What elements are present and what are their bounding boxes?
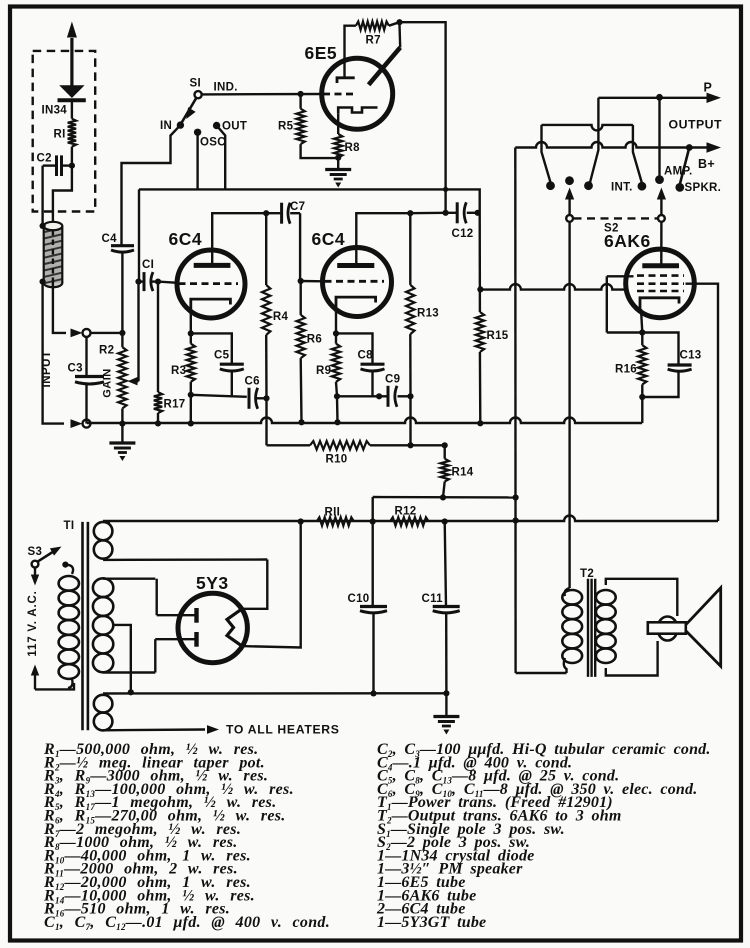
6AK6 grid line xyxy=(480,284,627,290)
T1 HV center tap xyxy=(112,625,131,692)
oscillator feedback line xyxy=(139,189,480,212)
contact IN xyxy=(177,121,184,128)
6AK6 plate wire from right wiper xyxy=(660,222,663,266)
5Y3 plate 1 xyxy=(194,608,198,623)
S2 gang dashed link xyxy=(574,217,658,219)
T1 5V bottom lead to 5Y3 filament xyxy=(103,558,267,561)
T2 secondary winding xyxy=(596,590,616,605)
resistor R6 xyxy=(300,281,302,315)
6AK6 suppressor tie xyxy=(607,275,634,277)
B+ line xyxy=(515,142,707,148)
tube 6E5 xyxy=(322,58,393,129)
node R17 bottom xyxy=(155,420,161,426)
heater-ground bus xyxy=(103,692,446,695)
svg-text:C3: C3 xyxy=(68,363,83,375)
wire C1 left down to R2 wiper xyxy=(137,282,139,382)
wire S1 to 6E5 grid (IND line) xyxy=(202,93,322,96)
tube 6AK6 xyxy=(626,249,695,318)
node R9 at bus xyxy=(334,419,340,425)
resistor R1 xyxy=(68,119,76,147)
capacitor C3 xyxy=(85,337,87,377)
svg-text:R8: R8 xyxy=(345,142,361,154)
117VAC upper prong arrow xyxy=(34,568,36,579)
6C4-1 cathode xyxy=(191,299,231,314)
117VAC lower prong arrow xyxy=(34,675,36,689)
wire R4 bottom to bus B xyxy=(265,398,267,445)
svg-text:C10: C10 xyxy=(348,593,370,605)
6AK6 screen wire xyxy=(686,284,719,521)
svg-text:CI: CI xyxy=(142,259,154,271)
6AK6 screen dash xyxy=(637,282,684,285)
svg-text:OSC: OSC xyxy=(200,137,226,149)
node C12 left xyxy=(443,210,449,216)
node rail R11-R12-C10 xyxy=(370,518,376,524)
H2 right leg xyxy=(633,125,642,183)
node R7 right / plate xyxy=(396,19,402,25)
svg-text:R6: R6 xyxy=(307,334,322,346)
svg-text:C2: C2 xyxy=(37,153,52,165)
resistor R17 xyxy=(157,282,159,393)
6C4-2 cathode xyxy=(336,297,376,312)
node C1 right / 6C4 grid xyxy=(155,279,161,285)
T1 HV top lead xyxy=(103,578,155,580)
svg-text:5Y3: 5Y3 xyxy=(196,573,229,593)
T1 primary terminal xyxy=(62,562,68,568)
capacitor C11 xyxy=(445,522,446,607)
node R15 bottom at bus xyxy=(477,420,483,426)
wire R16 bottom to ground bus xyxy=(641,397,644,423)
5Y3 filament top wire xyxy=(242,560,267,609)
6AK6 plate bar xyxy=(642,263,679,268)
node C10 at heater bus xyxy=(370,690,376,696)
node C12 right xyxy=(475,210,481,216)
capacitor C5 xyxy=(191,333,232,364)
svg-text:TO ALL HEATERS: TO ALL HEATERS xyxy=(226,723,340,737)
capacitor C12 xyxy=(446,212,457,214)
svg-text:R14: R14 xyxy=(452,467,474,479)
T2 secondary top lead xyxy=(606,579,678,616)
T1 5V top lead to B+ rail xyxy=(103,521,110,523)
speaker magnet xyxy=(658,617,678,641)
node 6AK6 grid tap xyxy=(477,286,483,292)
svg-text:6AK6: 6AK6 xyxy=(604,231,651,251)
node R3 bottom xyxy=(188,392,194,398)
svg-text:R17: R17 xyxy=(164,399,186,411)
svg-text:IN: IN xyxy=(160,120,172,132)
wire R3 bottom to bus xyxy=(190,395,192,424)
capacitor C8 xyxy=(336,333,373,364)
node rail 5Y3 takeoff xyxy=(298,518,304,524)
tube 6C4 first xyxy=(177,250,245,318)
resistor R8 xyxy=(337,114,339,134)
node 6AK6 cathode junction xyxy=(639,329,645,335)
wire to T2 primary bottom xyxy=(516,672,567,674)
svg-text:R5: R5 xyxy=(278,121,294,133)
6AK6 control grid dash xyxy=(637,290,684,293)
resistor R7 xyxy=(356,22,389,30)
6C4-1 plate wire to node xyxy=(212,213,266,265)
6E5 ray electrode xyxy=(369,48,401,85)
node R3 at bus xyxy=(188,420,194,426)
svg-text:C13: C13 xyxy=(680,350,702,362)
node 6C4-1 plate / C7 / R4 xyxy=(263,210,269,216)
svg-text:R7: R7 xyxy=(366,35,381,47)
resistor R14 xyxy=(444,445,446,458)
wire IN to C4 xyxy=(122,125,181,246)
probe body xyxy=(44,279,63,287)
T1 6.3V bottom lead / heater line xyxy=(103,728,205,731)
node R9 bottom xyxy=(334,393,340,399)
wire R13 bottom to bus B xyxy=(409,396,411,445)
svg-text:B+: B+ xyxy=(698,157,715,171)
svg-text:INPUT: INPUT xyxy=(41,351,53,388)
T1 6.3V top lead xyxy=(103,694,108,695)
node R16 bottom xyxy=(639,394,645,400)
probe shield node bottom xyxy=(40,279,46,285)
capacitor C10 xyxy=(372,522,374,607)
svg-text:R3: R3 xyxy=(171,365,186,377)
input jack 2 xyxy=(71,419,83,428)
svg-text:R15: R15 xyxy=(487,330,509,342)
node rail R12-C11 xyxy=(442,518,448,524)
wire jack1 to R2 top xyxy=(91,332,123,334)
svg-text:C12: C12 xyxy=(452,228,474,240)
node 6C4-2 grid / R6 xyxy=(298,278,304,284)
svg-text:RII: RII xyxy=(325,507,341,519)
T1 primary winding xyxy=(59,576,79,591)
probe shield node top xyxy=(40,223,46,229)
capacitor C6 xyxy=(248,388,251,409)
B+ branch line H_c xyxy=(373,496,516,499)
svg-text:AMP.: AMP. xyxy=(664,166,692,178)
resistor R13 xyxy=(409,213,411,285)
node C9 right / R13 bottom xyxy=(407,393,413,399)
node C6 right / R4 bottom xyxy=(263,395,269,401)
svg-text:6C4: 6C4 xyxy=(312,229,346,249)
T2 primary bottom lead xyxy=(564,658,567,673)
wire R3-C5 bottom line xyxy=(191,395,247,397)
svg-text:R13: R13 xyxy=(417,308,439,320)
node B+ SPKR arm xyxy=(686,144,693,151)
svg-text:C4: C4 xyxy=(102,233,118,245)
svg-text:S3: S3 xyxy=(28,546,43,558)
node P line xyxy=(656,94,663,101)
node B+ vertical at rail xyxy=(513,517,519,523)
H2 left leg xyxy=(542,125,551,183)
wire plate2 line to C12 xyxy=(410,212,445,215)
svg-text:C8: C8 xyxy=(358,350,374,362)
svg-text:R16: R16 xyxy=(615,364,637,376)
dashed probe housing box xyxy=(33,51,95,212)
node 6C4-2 plate / C12 line xyxy=(407,210,413,216)
svg-text:T2: T2 xyxy=(580,568,594,580)
probe tip arrow xyxy=(70,38,73,86)
svg-text:SI: SI xyxy=(190,78,201,90)
node C11 at heater bus xyxy=(443,690,449,696)
resistor R5 xyxy=(299,94,301,109)
6C4-1 cathode wire xyxy=(190,314,192,333)
T1 6.3V winding xyxy=(94,695,113,713)
node R2 bottom xyxy=(119,421,125,427)
6C4-1 grid dash xyxy=(179,282,239,285)
T1 HV bottom lead xyxy=(103,671,155,673)
svg-text:6C4: 6C4 xyxy=(169,229,203,249)
SPKR arm xyxy=(680,148,690,185)
resistor R10 xyxy=(310,441,370,449)
6C4-2 grid dash xyxy=(325,280,385,283)
svg-text:C6: C6 xyxy=(245,376,260,388)
5Y3 plate 1 wire xyxy=(155,579,157,616)
node osc line at 6E5 vertical xyxy=(443,187,448,192)
6E5 target T electrode xyxy=(337,78,355,83)
resistor R11 xyxy=(317,517,354,525)
node H_c at B+ vertical xyxy=(513,494,519,500)
wire P line to left pole contact 3 xyxy=(590,98,598,183)
P output line xyxy=(598,97,707,99)
svg-text:R4: R4 xyxy=(273,311,289,323)
S2 right wiper xyxy=(658,215,665,222)
B+ vertical from switch to T2 xyxy=(514,148,517,674)
capacitor C2 xyxy=(55,155,58,176)
node center tap at bus xyxy=(128,689,134,695)
node R8 bottom xyxy=(335,155,341,161)
6AK6 cathode wire xyxy=(641,309,642,333)
ground below R2 xyxy=(121,424,123,443)
capacitor C1 xyxy=(143,272,146,291)
resistor R3 xyxy=(187,344,195,382)
node R14 bottom xyxy=(440,494,446,500)
resistor R15 xyxy=(479,213,482,312)
diode 1N34 xyxy=(59,85,84,98)
6C4-1 plate bar xyxy=(194,263,231,268)
svg-text:IND.: IND. xyxy=(214,82,238,94)
capacitor C13 xyxy=(642,333,678,366)
capacitor C9 xyxy=(379,395,387,397)
svg-text:R12: R12 xyxy=(395,506,417,518)
svg-text:C11: C11 xyxy=(422,593,444,605)
6C4-2 plate wire xyxy=(356,213,410,265)
node C1 left xyxy=(135,279,141,285)
wire R1 node down to probe center xyxy=(53,166,72,223)
6AK6 cathode xyxy=(640,298,679,309)
ground below R8 xyxy=(337,158,339,170)
wire probe shield to input jack 2 xyxy=(43,282,64,424)
wire R9-C8 bottom line xyxy=(337,395,379,397)
capacitor C7 xyxy=(266,212,280,214)
wire P node to AMP contact xyxy=(658,97,660,179)
svg-text:R10: R10 xyxy=(326,454,348,466)
6AK6 suppressor dash xyxy=(637,274,684,277)
switch S3 xyxy=(32,561,39,568)
node C9 left xyxy=(376,393,382,399)
node R2 top xyxy=(119,330,125,336)
S2 contact dots xyxy=(546,181,555,190)
svg-text:P: P xyxy=(704,81,713,95)
wire C2 left to probe shield xyxy=(41,166,43,224)
6C4-2 plate bar xyxy=(337,263,374,268)
wire H_c to R11 junction xyxy=(372,497,374,522)
svg-text:INT.: INT. xyxy=(611,182,633,194)
S2 left wiper xyxy=(566,215,573,222)
speaker cone xyxy=(683,588,721,666)
5Y3 filament bottom wire to B+ takeoff xyxy=(242,522,301,648)
R2 wiper arrow xyxy=(134,380,139,382)
ground below C11 xyxy=(445,693,447,716)
svg-text:C5: C5 xyxy=(214,350,230,362)
potentiometer R2 xyxy=(121,333,123,347)
resistor R4 xyxy=(265,213,267,285)
node 6C4-1 cathode xyxy=(188,330,194,336)
bus B B+ feed line xyxy=(267,444,311,446)
svg-text:OUTPUT: OUTPUT xyxy=(669,118,723,132)
wire 6E5 plate to C12 vertical xyxy=(400,22,446,213)
wire R9 bottom to bus xyxy=(336,396,339,422)
tube 5Y3 xyxy=(178,593,247,662)
B+ rail xyxy=(103,516,718,522)
speaker voice coil xyxy=(648,622,686,633)
svg-text:1—5Y3GT tube: 1—5Y3GT tube xyxy=(377,914,486,931)
ground bus A xyxy=(87,418,642,424)
wire OSC down to osc line xyxy=(196,132,198,189)
5Y3 plate 2 xyxy=(194,632,198,647)
resistor R9 xyxy=(332,344,340,382)
S2 upper link wire H2 xyxy=(542,125,633,130)
S3 blade xyxy=(38,552,54,562)
contact OUT xyxy=(213,122,220,129)
node R1-C2 xyxy=(69,163,75,169)
6C4-2 cathode wire xyxy=(335,312,337,333)
svg-text:117 V. A.C.: 117 V. A.C. xyxy=(27,590,39,656)
svg-text:R2: R2 xyxy=(99,345,114,357)
svg-text:C9: C9 xyxy=(385,374,400,386)
node R6 at bus xyxy=(298,419,304,425)
probe center conductor dashed xyxy=(52,230,54,283)
node R14 top xyxy=(442,442,448,448)
node R5 top xyxy=(298,91,304,97)
contact OSC xyxy=(194,129,201,136)
wire C7 right down to 6C4-2 grid xyxy=(299,213,301,281)
node bus B R13 xyxy=(407,442,413,448)
svg-text:C7: C7 xyxy=(290,201,305,213)
svg-text:SPKR.: SPKR. xyxy=(685,182,722,194)
wire lower prong to T1 primary xyxy=(35,683,74,689)
6E5 cathode electrode xyxy=(338,108,377,114)
wire probe center to input jack 1 xyxy=(53,283,66,333)
T1 HV winding xyxy=(93,578,113,597)
tube 6C4 second xyxy=(323,248,392,317)
svg-text:OUT: OUT xyxy=(222,121,247,133)
5Y3 filament xyxy=(227,609,242,646)
wire left wiper to T2 primary xyxy=(568,222,570,588)
T2 primary winding xyxy=(562,590,582,605)
T1 5V winding xyxy=(94,522,113,540)
wire OUT down to osc line xyxy=(217,126,226,190)
T2 secondary bottom lead xyxy=(606,641,658,676)
node 6C4-2 cathode xyxy=(333,330,339,336)
svg-text:GAIN: GAIN xyxy=(102,368,114,398)
S1 blade to IN xyxy=(181,98,197,124)
svg-text:IN34: IN34 xyxy=(42,105,68,117)
resistor R16 xyxy=(641,333,643,346)
input jack 1 xyxy=(71,329,83,338)
svg-text:RI: RI xyxy=(54,129,66,141)
capacitor C4 xyxy=(111,244,134,247)
T1 core xyxy=(81,522,84,730)
svg-text:6E5: 6E5 xyxy=(305,43,338,63)
5Y3 plate 2 wire xyxy=(154,639,156,672)
6E5 grid dash xyxy=(323,93,354,96)
resistor R12 xyxy=(390,517,429,525)
switch S1 pole xyxy=(195,91,202,98)
svg-text:R9: R9 xyxy=(316,365,331,377)
svg-text:TI: TI xyxy=(64,520,75,532)
T2 core xyxy=(587,579,589,677)
